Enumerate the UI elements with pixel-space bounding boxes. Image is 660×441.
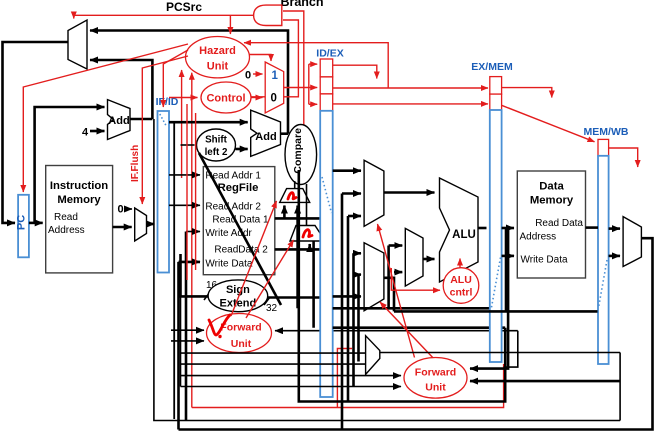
svg-text:Read: Read [54, 212, 78, 223]
svg-text:Forward: Forward [220, 322, 261, 334]
wire muxA to ALU [384, 191, 435, 194]
wire bottom-left bus 1 [181, 352, 366, 354]
svg-text:Unit: Unit [207, 61, 229, 73]
oval Compare [285, 125, 317, 185]
wire write data from WB [179, 261, 201, 264]
unit Hazard oval [186, 37, 250, 78]
unit ALU cntrl [443, 268, 479, 304]
wire instruction to shift left 2 [181, 144, 195, 146]
wire pc+4 from IF/ID to branch Add [169, 121, 248, 124]
oval Sign Extend [208, 280, 268, 312]
svg-text:ReadData 2: ReadData 2 [214, 245, 268, 256]
wire bottom-left bus 2 [181, 363, 366, 365]
wire IF/ID to control [169, 97, 198, 99]
wire read data 1 out [275, 217, 320, 220]
mux ALU input A [364, 160, 384, 226]
mux below EX stage [366, 336, 380, 375]
wire forward1 select to muxB [246, 240, 294, 318]
wire pc mux output to PC [3, 42, 69, 223]
svg-text:Hazard: Hazard [199, 45, 236, 57]
svg-text:0: 0 [271, 93, 277, 105]
wire exmem b to write data [502, 255, 514, 258]
wire bottom-left bus 3 [181, 375, 402, 377]
register IF/ID [158, 111, 170, 273]
svg-text:Data: Data [539, 181, 564, 193]
wire forward ex vertical 1 [341, 194, 344, 430]
wire memwb to wb mux in1 [609, 227, 620, 230]
svg-text:ALU: ALU [452, 229, 476, 241]
svg-text:Forward: Forward [415, 367, 456, 379]
wire Add output to pc+4 bus [130, 118, 152, 121]
component RegFile [203, 167, 274, 275]
svg-text:Memory: Memory [57, 194, 101, 206]
wire forward1 select to muxA [231, 201, 277, 316]
wire forward2 select to muxB [380, 302, 433, 358]
wire 4 into Add [90, 130, 105, 133]
svg-text:EX/MEM: EX/MEM [471, 61, 513, 73]
alu ALU [440, 178, 479, 282]
wire alu src B1 [352, 253, 355, 386]
wire memwb vertical right [619, 353, 621, 421]
svg-text:PC: PC [16, 215, 28, 230]
wire branch Add output [281, 132, 289, 135]
mux ALU operand B select [405, 228, 423, 286]
wire read data 2 out [275, 248, 320, 251]
gate branch AND (mirrored) [254, 5, 282, 25]
wire bus 327 [333, 326, 506, 329]
register MEM/WB control box [598, 139, 609, 155]
wire read addr 1 [169, 174, 200, 176]
tick 32 bus [264, 297, 270, 305]
wire rd2 up into muxB [308, 244, 311, 249]
register EX/MEM [490, 110, 502, 362]
mux control bubble (red) [265, 62, 284, 113]
svg-text:MEM/WB: MEM/WB [584, 126, 629, 138]
svg-text:RegFile: RegFile [218, 182, 259, 194]
wire branch signal down to hazard unit [229, 15, 231, 34]
svg-text:Compare: Compare [292, 128, 304, 174]
mux instruction flush [135, 208, 147, 241]
svg-text:Read Data 1: Read Data 1 [212, 215, 269, 226]
wire alu cntrl to alu [459, 259, 461, 268]
mux PC source [68, 20, 87, 69]
svg-text:Unit: Unit [425, 382, 446, 394]
mux write back [623, 217, 641, 267]
wire long diagonal [199, 153, 281, 305]
svg-text:cntrl: cntrl [450, 287, 473, 299]
wire read addr 2 [169, 204, 200, 206]
svg-text:ALU: ALU [450, 274, 472, 286]
squiggle check on forward unit 1 [209, 315, 230, 335]
wire idex WB control loop [333, 65, 377, 78]
wire PC to instruction memory [29, 222, 43, 225]
wire exmem alu result to address [502, 227, 514, 230]
wire compare result to AND gate input [283, 11, 304, 127]
wire hazard aux red vertical 1 [186, 104, 188, 280]
svg-text:Shift: Shift [205, 135, 228, 146]
wire hazard stall to PC [23, 44, 188, 192]
wire control output into control mux [251, 97, 263, 99]
wire zero into flush mux [126, 208, 133, 210]
register PC [18, 195, 29, 257]
wire muxA output to compare [294, 181, 296, 189]
wire hazard IF.Flush to flush mux [142, 56, 188, 204]
svg-text:Write Data: Write Data [205, 259, 252, 270]
svg-text:ID/EX: ID/EX [316, 48, 343, 60]
wire memwb value to FU2 [470, 380, 620, 383]
wire muxB output to compare [306, 184, 308, 226]
tick 16 bus [204, 292, 210, 300]
wire zero into control mux [253, 73, 263, 75]
wire instruction vertical bus [173, 122, 175, 419]
svg-text:4: 4 [82, 127, 89, 139]
component Instruction Memory [46, 166, 113, 273]
wire red bottom branch up [337, 349, 352, 408]
unit Forward Unit 2 [404, 358, 467, 399]
wire idex EX control to exmem [333, 103, 488, 105]
wire alu src B2 [357, 275, 360, 362]
svg-text:Control: Control [206, 93, 245, 105]
adder Add branch target [251, 110, 281, 156]
svg-text:Read Data: Read Data [535, 218, 583, 229]
svg-text:Memory: Memory [530, 195, 574, 207]
svg-text:Branch: Branch [280, 0, 323, 9]
unit Control oval [201, 82, 251, 113]
wire instruction memory output to flush mux [113, 226, 132, 229]
wire thin vertical left [154, 119, 620, 421]
mux ALU input B [364, 243, 384, 311]
oval Shift left 2 [197, 129, 236, 161]
wire alu result to exmem [478, 227, 487, 230]
wire alu src B3 [333, 295, 361, 298]
wire PC value up to Add [35, 107, 105, 223]
wire register number vertical bus [185, 232, 188, 421]
wire immediate to small mux [387, 246, 390, 309]
svg-text:1: 1 [272, 70, 279, 82]
wire b value bus to exmem [333, 307, 490, 310]
wire memwb to wb mux in2 [609, 255, 620, 258]
squiggle on mux A [288, 193, 296, 199]
svg-text:Sign: Sign [226, 284, 250, 296]
wire branch target top bus [90, 31, 288, 134]
wire thick loop 401 [299, 170, 505, 402]
wire func to alu cntrl [391, 268, 440, 290]
svg-text:Address: Address [520, 232, 557, 243]
svg-text:PCSrc: PCSrc [166, 0, 202, 14]
svg-text:Add: Add [255, 131, 276, 143]
svg-text:IF.Flush: IF.Flush [130, 145, 141, 182]
register EX/MEM control boxes [490, 77, 502, 95]
wire exmem M control drop [502, 88, 552, 98]
wire pc+4 feedback bus [90, 60, 152, 119]
wire alu result forward to FU2 [470, 228, 508, 369]
svg-text:0: 0 [245, 70, 251, 82]
wire wb mux output down and around [179, 238, 653, 429]
wire bottom-left bus 4 [181, 386, 402, 388]
svg-text:0: 0 [117, 204, 123, 216]
register ID/EX control boxes [320, 59, 333, 77]
wire red bottom path [192, 364, 504, 408]
wire rd1 up into muxA [283, 206, 286, 219]
svg-text:Read Addr 2: Read Addr 2 [205, 202, 261, 213]
wire hazard input rt long red path [191, 73, 193, 408]
wire alu src A [333, 169, 361, 172]
wire control branch to AND gate input [251, 20, 298, 97]
wire flush mux to IF/ID [147, 223, 155, 226]
wire forward ex vertical 2 [347, 216, 350, 402]
svg-text:Address: Address [48, 225, 85, 236]
wire control mux to ID/EX control boxes [284, 87, 309, 89]
register ID/EX [320, 111, 333, 397]
wire sign extend output [268, 296, 321, 299]
svg-text:Unit: Unit [231, 338, 252, 350]
component Data Memory [517, 171, 585, 278]
svg-text:Write Data: Write Data [521, 255, 568, 266]
svg-text:Add: Add [108, 115, 129, 127]
svg-text:32: 32 [266, 303, 278, 314]
wire small mux to ALU [423, 258, 435, 261]
wire WB return vertical [177, 262, 180, 430]
wire exmem WB control to memwb [502, 105, 595, 142]
wire forwarded value up into muxA [296, 206, 299, 309]
wire idex M feedback to hazard [244, 43, 388, 88]
squiggle on mux B [303, 230, 312, 237]
wire PCSrc from AND gate to PC mux select [74, 15, 254, 18]
wire read data to memwb [586, 226, 599, 229]
svg-text:Instruction: Instruction [50, 180, 108, 192]
unit Forward Unit 1 [207, 314, 272, 353]
wire muxB output down [384, 278, 394, 312]
wire sign extend input [181, 254, 210, 296]
wire mux4 output to mem stage [380, 352, 620, 354]
wire forward1 input right (rt register path) [275, 330, 518, 332]
wire vertical below muxB [312, 241, 315, 328]
wire forward1 input a [171, 329, 204, 331]
wire hazard input rs [181, 70, 183, 178]
mux forward B (ID) [290, 226, 325, 242]
wire alu result down [505, 228, 508, 311]
wire idex M control to exmem [333, 87, 488, 89]
wire shift left 2 to Add [236, 148, 248, 151]
wire write addr [186, 231, 200, 233]
wire memwb WB control drop [609, 148, 638, 167]
wire forward1 input b [171, 340, 204, 342]
adder Add PC+4 [108, 100, 131, 140]
wire hazard aux red vertical 2 [195, 113, 197, 270]
mux forward A (ID) [280, 189, 310, 203]
svg-text:left 2: left 2 [205, 147, 228, 158]
wire hazard stall to IF/ID [163, 50, 188, 107]
wire forward2 select to muxA [378, 224, 415, 358]
wire hazard select to control mux [250, 55, 272, 62]
register MEM/WB [598, 156, 609, 364]
